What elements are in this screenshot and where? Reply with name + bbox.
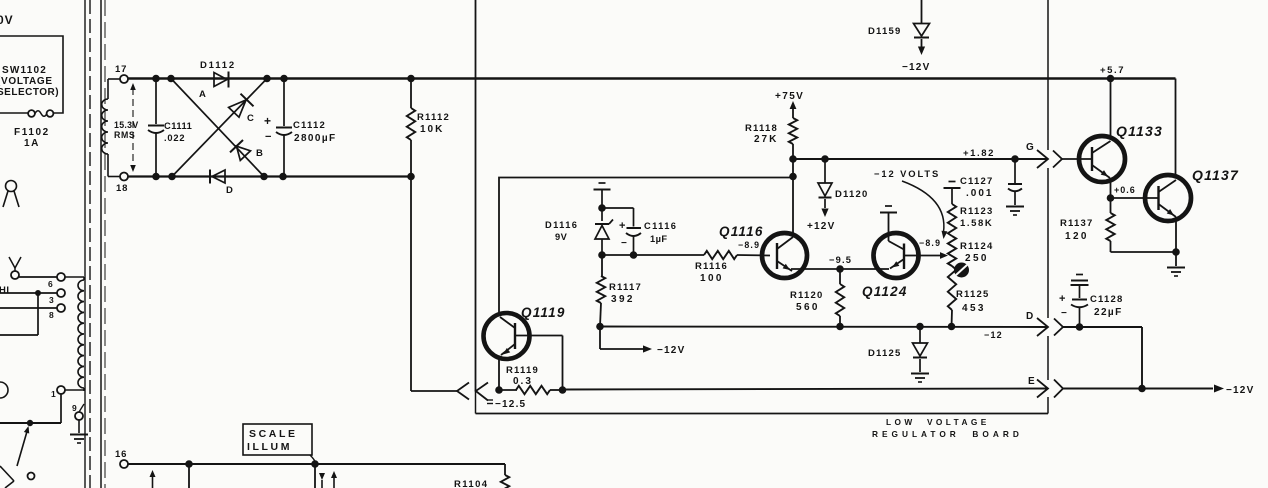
svg-text:3: 3 bbox=[49, 295, 55, 305]
resistor R1104 bbox=[504, 464, 506, 475]
text -12.5 bbox=[487, 399, 493, 401]
svg-text:−9.5: −9.5 bbox=[829, 255, 852, 265]
capacitor C1111 .022 bbox=[155, 79, 157, 125]
svg-text:−8.9: −8.9 bbox=[919, 238, 941, 248]
regulator board right edge bbox=[1047, 0, 1049, 150]
15.3V RMS measure arrows bbox=[132, 88, 134, 167]
wire bottom left bbox=[0, 422, 61, 424]
svg-text:Q1137: Q1137 bbox=[1192, 167, 1239, 183]
svg-text:2800µF: 2800µF bbox=[294, 133, 337, 144]
terminal 18 bbox=[120, 173, 128, 181]
svg-text:SCALE: SCALE bbox=[249, 428, 298, 440]
diode D1112-D bbox=[212, 170, 225, 183]
ground below Q1137 emitter bbox=[1175, 252, 1177, 266]
ground above D1116 bbox=[599, 182, 606, 184]
transformer primary winding bbox=[78, 280, 84, 388]
svg-text:+0.6: +0.6 bbox=[1114, 185, 1136, 195]
svg-text:0V: 0V bbox=[0, 13, 14, 27]
svg-text:R1116: R1116 bbox=[695, 261, 728, 272]
svg-text:10K: 10K bbox=[420, 124, 444, 135]
svg-text:E: E bbox=[1028, 376, 1035, 387]
svg-text:C1128: C1128 bbox=[1090, 294, 1123, 305]
svg-text:453: 453 bbox=[962, 303, 986, 314]
wire: bottom rail of bridge bbox=[128, 175, 411, 177]
wire to -12V arrow bbox=[599, 327, 601, 350]
corner diagonal bbox=[0, 466, 14, 481]
long vertical wire from top to E node bbox=[475, 0, 477, 391]
terminal 9 with ground bbox=[75, 412, 83, 420]
svg-text:−12V: −12V bbox=[902, 62, 930, 73]
svg-text:A: A bbox=[199, 89, 207, 100]
wiper arrow Q1124 to R1124 bbox=[919, 255, 941, 257]
svg-text:−: − bbox=[265, 131, 271, 143]
wire Q1133 emitter to Q1137 base bbox=[1111, 197, 1159, 199]
svg-text:250: 250 bbox=[965, 253, 989, 264]
svg-text:−12: −12 bbox=[984, 330, 1003, 340]
svg-text:RMS: RMS bbox=[114, 130, 135, 140]
svg-text:1A: 1A bbox=[24, 138, 40, 149]
wire to terminal 8 bbox=[0, 307, 57, 309]
svg-text:Q1133: Q1133 bbox=[1116, 123, 1163, 139]
wire: main unregulated rail (top) bbox=[128, 77, 1176, 80]
svg-text:C1127: C1127 bbox=[960, 176, 993, 187]
svg-text:18: 18 bbox=[116, 183, 128, 194]
transformer core line bbox=[100, 0, 102, 488]
label SCALE ILLUM box bbox=[243, 424, 312, 455]
svg-text:+: + bbox=[264, 114, 271, 128]
svg-text:F1102: F1102 bbox=[14, 127, 50, 138]
lamp symbol bbox=[6, 181, 17, 192]
resistor R1120 560 bbox=[836, 265, 844, 273]
transistor Q1119 bbox=[484, 313, 530, 359]
svg-text:.022: .022 bbox=[164, 133, 185, 143]
svg-text:16: 16 bbox=[115, 449, 127, 460]
svg-text:HI: HI bbox=[0, 285, 10, 296]
wire +5.7 down right side bbox=[1175, 79, 1177, 179]
svg-text:1.58K: 1.58K bbox=[960, 218, 993, 229]
svg-text:100: 100 bbox=[700, 273, 724, 284]
svg-text:D1125: D1125 bbox=[868, 348, 901, 359]
svg-text:560: 560 bbox=[796, 302, 820, 313]
svg-text:R1120: R1120 bbox=[790, 290, 823, 301]
svg-text:LOW VOLTAGE: LOW VOLTAGE bbox=[886, 417, 990, 427]
svg-text:G: G bbox=[1026, 142, 1034, 153]
bridge diagonal wire 2 bbox=[172, 79, 267, 177]
switch SW1102 box bbox=[0, 36, 63, 113]
transformer core line 2 bbox=[104, 0, 106, 488]
ground above Q1124 bbox=[885, 205, 892, 207]
meter circle at edge bbox=[0, 382, 8, 398]
svg-text:−12.5: −12.5 bbox=[495, 399, 526, 410]
pot adjust screw bbox=[954, 263, 969, 278]
resistor R1117 392 bbox=[601, 255, 603, 276]
svg-text:22µF: 22µF bbox=[1094, 307, 1123, 318]
resistor R1137 120 bbox=[1110, 198, 1112, 213]
antenna Y terminal bbox=[9, 257, 15, 268]
chassis boundary dashed line bbox=[89, 0, 91, 488]
capacitor C1112 2800uF bbox=[283, 79, 285, 127]
svg-text:−12 VOLTS: −12 VOLTS bbox=[874, 168, 940, 179]
terminal 1 bbox=[57, 386, 65, 394]
edge connector E left chevrons bbox=[457, 383, 469, 400]
capacitor C1127 .001 bbox=[1011, 155, 1019, 163]
svg-text:SW1102: SW1102 bbox=[2, 65, 47, 76]
chassis boundary solid line bbox=[84, 0, 86, 488]
transistor Q1116 bbox=[762, 233, 807, 278]
svg-text:ILLUM: ILLUM bbox=[247, 441, 292, 453]
svg-text:R1112: R1112 bbox=[417, 112, 450, 123]
svg-text:1µF: 1µF bbox=[650, 234, 667, 244]
resistor R1116 100 bbox=[602, 254, 704, 256]
svg-text:D1120: D1120 bbox=[835, 189, 868, 200]
switch arm bbox=[17, 428, 28, 466]
resistor R1125 453 bbox=[948, 266, 956, 310]
transistor Q1124 bbox=[874, 233, 919, 278]
capacitor C1116 1uF bbox=[602, 207, 634, 209]
transformer winding (secondary 15.3V) bbox=[102, 99, 108, 154]
wire from dot down-left bbox=[37, 293, 39, 335]
wire E line inside board bbox=[563, 389, 1049, 390]
svg-text:0.3: 0.3 bbox=[513, 376, 533, 387]
svg-text:15.3V: 15.3V bbox=[114, 120, 139, 130]
svg-text:R1104: R1104 bbox=[454, 479, 488, 488]
svg-text:−12V: −12V bbox=[657, 345, 685, 356]
svg-text:R1137: R1137 bbox=[1060, 218, 1093, 229]
svg-text:R1119: R1119 bbox=[506, 365, 539, 376]
svg-text:D1116: D1116 bbox=[545, 220, 578, 230]
wire D line outside bbox=[1063, 326, 1142, 328]
svg-text:392: 392 bbox=[611, 294, 635, 305]
svg-text:+12V: +12V bbox=[807, 221, 835, 232]
svg-text:REGULATOR BOARD: REGULATOR BOARD bbox=[872, 429, 1023, 439]
svg-text:+: + bbox=[1059, 293, 1065, 305]
resistor R1118 27K bbox=[789, 118, 797, 144]
terminal 17 bbox=[120, 75, 128, 83]
bridge junction dots bbox=[152, 75, 160, 83]
svg-text:Q1124: Q1124 bbox=[862, 284, 908, 299]
svg-text:Q1116: Q1116 bbox=[719, 224, 764, 239]
svg-text:C1112: C1112 bbox=[293, 120, 326, 131]
svg-text:17: 17 bbox=[115, 64, 127, 75]
svg-text:R1125: R1125 bbox=[956, 289, 989, 300]
potentiometer R1124 250 bbox=[948, 236, 956, 266]
svg-text:C1116: C1116 bbox=[644, 221, 677, 231]
wire +1.82 line bbox=[793, 158, 1048, 160]
edge connector E right bbox=[1037, 380, 1048, 398]
wire Q1116 emitter to Q1124 bbox=[791, 268, 889, 270]
wire to terminal 6 bbox=[19, 276, 57, 278]
text +5.7 bbox=[1107, 75, 1115, 83]
svg-text:C: C bbox=[247, 113, 255, 124]
ground above R1123 bbox=[949, 181, 956, 183]
svg-text:+75V: +75V bbox=[775, 91, 804, 102]
svg-text:6: 6 bbox=[48, 279, 54, 289]
svg-text:R1118: R1118 bbox=[745, 123, 778, 134]
wire R1112 to E connector bbox=[410, 177, 412, 392]
zener D1116 9V bbox=[601, 208, 603, 221]
svg-text:R1123: R1123 bbox=[960, 206, 993, 217]
svg-text:−: − bbox=[1061, 308, 1067, 319]
svg-text:D1159: D1159 bbox=[868, 26, 901, 37]
pot arrows R1107/R1108 bbox=[319, 473, 325, 480]
board top-left corner wire bbox=[499, 178, 793, 314]
diode D1125 bbox=[916, 323, 924, 331]
svg-text:D: D bbox=[226, 185, 234, 196]
diode D1159 bbox=[921, 0, 923, 23]
svg-text:R1124: R1124 bbox=[960, 241, 993, 252]
diode D1112-A bbox=[214, 73, 227, 87]
svg-text:+1.82: +1.82 bbox=[963, 148, 995, 159]
regulator board left edge / E wire lower bbox=[475, 391, 477, 414]
svg-text:D: D bbox=[1026, 311, 1034, 322]
svg-text:B: B bbox=[256, 148, 264, 159]
wire to terminal 3 bbox=[0, 292, 57, 294]
fuse F1102 1A bbox=[28, 110, 35, 117]
svg-text:−8.9: −8.9 bbox=[738, 240, 760, 250]
svg-text:+5.7: +5.7 bbox=[1100, 65, 1125, 76]
diode D1120 bbox=[821, 155, 829, 163]
transistor Q1137 bbox=[1145, 175, 1191, 221]
svg-text:Q1119: Q1119 bbox=[521, 305, 566, 320]
svg-text:D1112: D1112 bbox=[200, 60, 236, 71]
svg-text:R1117: R1117 bbox=[609, 282, 642, 293]
wire E to -12V bbox=[1063, 388, 1213, 390]
+75V arrow bbox=[790, 101, 797, 109]
transistor Q1133 bbox=[1079, 136, 1125, 182]
ground above C1128 bbox=[1076, 274, 1083, 276]
bridge diagonal wire 1 bbox=[171, 79, 264, 177]
svg-text:8: 8 bbox=[49, 310, 55, 320]
wire scale illum bbox=[128, 463, 505, 465]
svg-text:9: 9 bbox=[72, 403, 78, 413]
wire -12 line inside board bbox=[600, 326, 1048, 329]
svg-text:27K: 27K bbox=[754, 134, 778, 145]
svg-text:(VOLTAGE: (VOLTAGE bbox=[0, 76, 53, 87]
svg-text:.001: .001 bbox=[966, 188, 993, 199]
svg-text:+: + bbox=[619, 220, 625, 232]
svg-text:C1111: C1111 bbox=[164, 121, 192, 131]
diode D1112-C bbox=[229, 100, 246, 117]
svg-text:1: 1 bbox=[51, 389, 57, 399]
resistor R1112 10K bbox=[407, 75, 415, 83]
resistor R1119 0.3 bbox=[495, 386, 503, 394]
resistor R1123 1.58K bbox=[948, 204, 956, 236]
svg-text:120: 120 bbox=[1065, 231, 1089, 242]
svg-text:−: − bbox=[621, 238, 627, 249]
svg-text:9V: 9V bbox=[555, 232, 568, 242]
lamp arrow bbox=[150, 470, 156, 477]
regulator board bottom edge bbox=[476, 413, 1049, 415]
wire Q1133 collector bbox=[1110, 79, 1112, 140]
diode D1112-B bbox=[237, 146, 251, 160]
svg-text:−12V: −12V bbox=[1226, 385, 1254, 396]
wire R1118 node down to Q1116 collector bbox=[792, 159, 794, 234]
terminal 16 bbox=[120, 460, 128, 468]
svg-text:SELECTOR): SELECTOR) bbox=[0, 87, 59, 98]
